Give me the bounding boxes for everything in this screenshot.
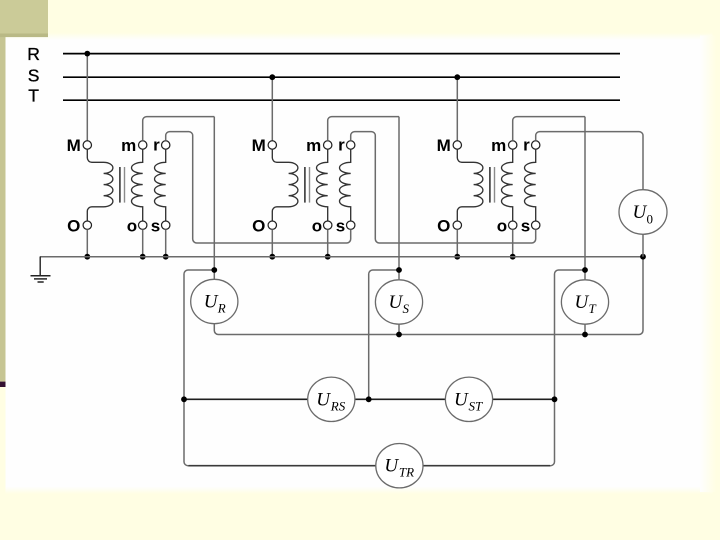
svg-text:R: R [27,44,40,64]
svg-text:S: S [403,301,410,316]
voltmeter U_T [561,280,608,324]
wire r3 to voltmeter U0 [536,132,643,190]
terminal m2 [324,141,332,149]
wire m2 up to voltmeter feed [328,117,399,141]
wire U_S bottom [398,324,400,334]
junction U_T bottom [582,332,588,338]
primary coil L2p [272,149,298,221]
wire o3 to ground bus [512,229,514,256]
row U_RS / U_ST [184,398,555,400]
transformer T2 [252,74,399,259]
secondary coil L3a (m-o) [502,149,513,221]
svg-text:m: m [306,136,321,155]
wire r1 to s2 (open delta link 1) [166,132,351,243]
wire O1 to ground bus [86,229,88,256]
left template strip [0,36,6,382]
wire O3 to ground bus [456,229,458,256]
wire phase S node: U_S top to row [369,270,399,399]
junction o3/bus [510,254,516,260]
svg-text:s: s [336,217,345,236]
svg-text:O: O [67,217,80,236]
wire o1 to ground bus [142,229,144,256]
wire r2 to s3 (open delta link 2) [351,132,536,243]
terminal O1 [83,221,91,229]
svg-text:m: m [491,136,506,155]
voltmeter U_RS [308,377,355,421]
transformer T3 [437,74,585,259]
phase line T [63,99,620,101]
node: tap of T3 on line S [454,74,460,80]
wire s1 to ground bus [165,229,167,256]
terminal M2 [268,141,276,149]
svg-text:RS: RS [330,398,346,413]
wire U_T bottom [584,324,586,334]
svg-text:s: s [521,217,530,236]
terminal s3 [532,221,540,229]
voltmeter U_TR [376,444,423,488]
svg-text:r: r [153,136,160,155]
terminal o3 [509,221,517,229]
secondary coil L2a (m-o) [317,149,328,221]
terminal M1 [83,141,91,149]
terminal r1 [162,141,170,149]
voltmeter U_ST [445,377,492,421]
primary coil L3p [457,149,483,221]
svg-text:U: U [633,202,648,223]
wire M3 to line S [456,77,458,141]
ground [31,257,51,282]
junction o2/bus [325,254,331,260]
phase line S [63,76,620,78]
svg-text:M: M [252,136,266,155]
svg-text:U: U [454,389,469,410]
junction S/row [366,396,372,402]
terminal m1 [139,141,147,149]
junction O1/bus [84,254,90,260]
terminal r2 [347,141,355,149]
maroon accent block [0,382,6,387]
svg-text:R: R [217,301,226,316]
junction U_S top node [396,267,402,273]
wire O2 to ground bus [271,229,273,256]
svg-text:U: U [389,292,404,313]
voltmeter U_S [375,280,422,324]
svg-text:ST: ST [469,398,484,413]
wire feed m3 down to U_T [584,117,586,280]
wire phase R node: U_R top / U_RS left / U_TR left [184,270,585,466]
svg-text:T: T [28,85,39,105]
terminal s1 [162,221,170,229]
junction R/U_RS row [181,396,187,402]
transformer core T1 [119,167,121,203]
junction T/row [552,396,558,402]
secondary coil L1b (r-s) [155,149,166,221]
svg-text:r: r [523,136,530,155]
voltmeter bottom return row [214,257,643,335]
svg-text:m: m [121,136,136,155]
svg-text:o: o [312,217,322,236]
wire row U_TR (dark overdraw) [189,465,551,467]
terminal O3 [453,221,461,229]
svg-text:S: S [28,65,40,85]
node: tap of T2 on line S [269,74,275,80]
transformer core T3 [489,167,491,203]
junction O2/bus [269,254,275,260]
terminal s2 [347,221,355,229]
junction U_R top node [211,267,217,273]
node: tap of T1 on line R [84,51,90,57]
junction U_S bottom [396,332,402,338]
phase line R [63,53,620,55]
secondary coil L2b (r-s) [340,149,351,221]
svg-text:U: U [204,292,219,313]
svg-text:U: U [575,292,590,313]
terminal r3 [532,141,540,149]
wire feed m2 down to U_S [398,117,400,280]
primary coil L1p [87,149,113,221]
wire M2 to line S [271,77,273,141]
wire M1 to line R [86,54,88,141]
terminal m3 [509,141,517,149]
wire m3 up to voltmeter feed [513,117,585,141]
voltmeter U0 [619,190,667,235]
terminal o2 [324,221,332,229]
svg-text:M: M [437,136,451,155]
transformer core T2 [304,167,306,203]
svg-text:T: T [589,301,597,316]
svg-text:s: s [151,217,160,236]
junction ground return/bus [640,254,646,260]
wire m1 up to voltmeter feed [143,117,215,141]
svg-text:O: O [252,217,265,236]
svg-text:0: 0 [647,212,654,227]
svg-text:TR: TR [399,465,414,480]
terminal O2 [268,221,276,229]
junction s1/bus [163,254,169,260]
secondary coil L1a (m-o) [132,149,143,221]
svg-text:O: O [437,217,450,236]
wire o2 to ground bus [327,229,329,256]
svg-text:M: M [67,136,81,155]
svg-text:U: U [384,456,399,477]
junction O3/bus [454,254,460,260]
terminal o1 [139,221,147,229]
wire U0 bottom to bus [642,234,644,256]
voltmeter U_R [191,279,238,323]
svg-text:o: o [497,217,507,236]
svg-text:U: U [316,389,331,410]
svg-text:o: o [127,217,137,236]
junction o1/bus [140,254,146,260]
ground bus [40,256,643,258]
secondary coil L3b (r-s) [525,149,536,221]
terminal M3 [453,141,461,149]
wire feed m1 down to U_R [213,117,215,280]
svg-text:r: r [338,136,345,155]
top-left template square [0,0,48,34]
transformer T1 [67,51,215,260]
junction U_T top node [582,267,588,273]
